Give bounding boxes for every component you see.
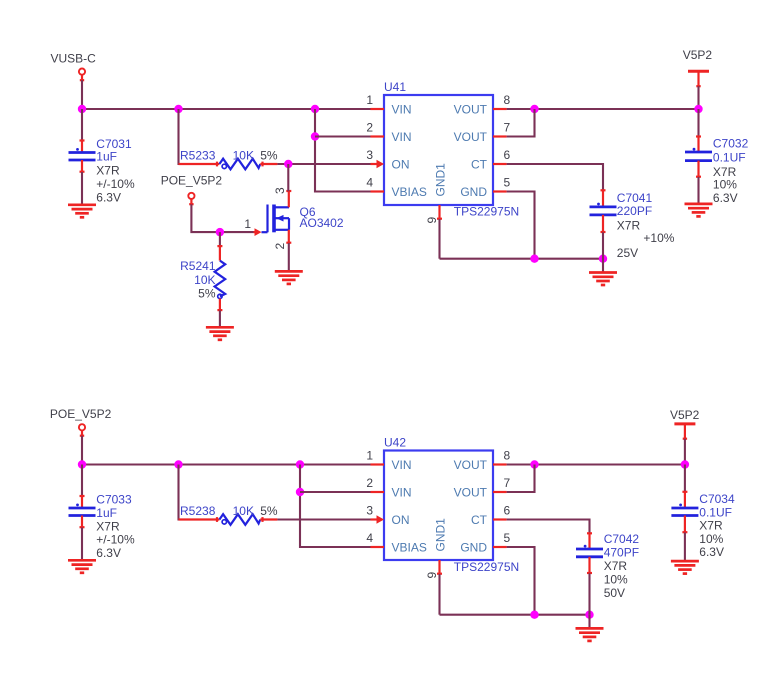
wire GND1 down to gnd net: [438, 574, 440, 615]
svg-text:6: 6: [504, 148, 511, 162]
svg-text:3: 3: [273, 187, 287, 194]
svg-text:+/-10%: +/-10%: [96, 533, 135, 547]
node junction rail/pin2-4 branch: [296, 460, 304, 468]
svg-text:10K: 10K: [233, 149, 254, 163]
svg-text:6.3V: 6.3V: [713, 191, 738, 205]
pin 2 source of Q6: [273, 230, 291, 250]
wire branch rail to pin4: [315, 109, 371, 192]
svg-text:R5241: R5241: [180, 259, 216, 273]
svg-text:V5P2: V5P2: [683, 48, 713, 62]
wire pin7 up to VOUT: [507, 465, 535, 493]
wire C7033 to ground: [81, 528, 83, 561]
wire Q6 source to ground: [288, 243, 290, 271]
wire pin5 to gnd net: [507, 192, 535, 259]
svg-text:CT: CT: [471, 513, 488, 527]
node junction pin5/gnd net: [530, 255, 538, 263]
pin 3 ON arrow: [366, 148, 409, 171]
svg-text:VUSB-C: VUSB-C: [51, 51, 97, 65]
svg-text:1: 1: [366, 449, 373, 463]
pin 2 VIN: [366, 121, 411, 144]
wire gnd net horizontal: [440, 614, 590, 616]
op-amp U41 IC box: [384, 95, 493, 205]
capacitor C7041: [590, 190, 617, 232]
svg-text:VOUT: VOUT: [454, 485, 488, 499]
svg-text:2: 2: [366, 476, 373, 490]
pin 5 GND: [460, 176, 510, 199]
node junction C7042/gnd net: [585, 611, 593, 619]
svg-text:C7041: C7041: [617, 191, 653, 205]
svg-text:470PF: 470PF: [604, 546, 639, 560]
wire VIN rail: [82, 108, 371, 110]
svg-text:X7R: X7R: [96, 163, 120, 177]
svg-text:8: 8: [504, 93, 511, 107]
svg-text:TPS22975N: TPS22975N: [454, 560, 519, 574]
pin 9 GND1 pad: [425, 518, 448, 579]
pin 7 VOUT: [454, 476, 511, 499]
svg-text:4: 4: [366, 531, 373, 545]
pin 6 CT: [471, 504, 511, 527]
wire VUSB-C down to rail: [81, 80, 83, 109]
ground C7042: [576, 628, 604, 641]
svg-text:220PF: 220PF: [617, 204, 652, 218]
wire C7031 to ground: [81, 172, 83, 205]
resistor R5241: [215, 246, 226, 310]
wire pin7 up to VOUT: [507, 109, 535, 137]
svg-text:5: 5: [504, 176, 511, 190]
svg-text:CT: CT: [471, 157, 488, 171]
node junction rail/C7031: [78, 105, 86, 113]
wire branch rail to pin4: [300, 465, 371, 548]
pin 6 CT: [471, 148, 511, 171]
node junction pin2 branch: [296, 488, 304, 496]
svg-text:VBIAS: VBIAS: [392, 540, 427, 554]
pin 1 gate of Q6: [244, 217, 261, 236]
svg-text:C7032: C7032: [713, 137, 749, 151]
node junction VOUT/V5P2/C7034: [681, 460, 689, 468]
svg-text:ON: ON: [392, 157, 410, 171]
svg-text:1uF: 1uF: [96, 150, 117, 164]
ground C7031: [68, 205, 96, 218]
BOTTOM CIRCUIT: [50, 407, 735, 641]
svg-text:R5238: R5238: [180, 504, 216, 518]
svg-text:10K: 10K: [194, 273, 215, 287]
svg-text:POE_V5P2: POE_V5P2: [50, 407, 112, 421]
svg-text:POE_V5P2: POE_V5P2: [161, 174, 223, 188]
svg-text:6.3V: 6.3V: [96, 546, 121, 560]
svg-text:X7R: X7R: [617, 218, 641, 232]
pin 7 VOUT: [454, 121, 511, 144]
power port symbol VUSB-C: [79, 69, 85, 81]
wire VOUT rail: [507, 463, 685, 465]
svg-text:VOUT: VOUT: [454, 102, 488, 116]
svg-text:10%: 10%: [713, 178, 737, 192]
svg-text:GND: GND: [460, 185, 487, 199]
wire R5233 to ON pin: [277, 163, 370, 165]
svg-text:VOUT: VOUT: [454, 458, 488, 472]
svg-text:GND: GND: [460, 540, 487, 554]
svg-text:50V: 50V: [604, 586, 625, 600]
svg-text:VIN: VIN: [392, 130, 412, 144]
svg-text:6: 6: [504, 504, 511, 518]
pin 1 VIN: [366, 449, 411, 472]
power port symbol POE_V5P2: [188, 193, 194, 205]
node junction pin2 branch: [311, 132, 319, 140]
wire branch to pin2: [300, 491, 371, 493]
wire C7031 rail to cap: [81, 109, 83, 141]
svg-text:VIN: VIN: [392, 485, 412, 499]
ground C7032: [685, 204, 713, 217]
pin 8 VOUT: [454, 93, 511, 116]
svg-text:C7034: C7034: [699, 492, 735, 506]
capacitor C7033: [69, 496, 96, 528]
wire C7034 to ground: [684, 533, 686, 562]
svg-text:5%: 5%: [198, 286, 216, 300]
wire R5238 to ON pin: [277, 518, 370, 520]
svg-text:10K: 10K: [233, 504, 254, 518]
wire V5P2 to rail: [684, 439, 686, 465]
svg-text:U42: U42: [384, 436, 406, 450]
ground C7033: [68, 560, 96, 573]
svg-text:6.3V: 6.3V: [699, 545, 724, 559]
svg-text:X7R: X7R: [604, 559, 628, 573]
wire rail down to R5238: [179, 465, 180, 520]
svg-text:GND1: GND1: [434, 163, 448, 197]
capacitor C7034: [671, 492, 698, 533]
wire CT to C7042: [507, 520, 590, 534]
svg-text:1: 1: [244, 217, 251, 231]
wire branch to pin2: [315, 135, 371, 137]
node junction ON/Q6 drain: [284, 160, 292, 168]
svg-text:10%: 10%: [604, 573, 628, 587]
svg-text:10%: 10%: [699, 532, 723, 546]
svg-text:ON: ON: [392, 513, 410, 527]
power port symbol POE_V5P2: [79, 424, 85, 436]
svg-text:0.1UF: 0.1UF: [699, 505, 732, 519]
svg-text:U41: U41: [384, 80, 406, 94]
wire down to C7032: [697, 109, 699, 136]
wire R5241 top: [219, 232, 221, 246]
svg-text:X7R: X7R: [699, 518, 723, 532]
wire Q6 drain to ON net: [287, 164, 289, 191]
svg-text:GND1: GND1: [434, 518, 448, 552]
pin 4 VBIAS: [366, 176, 427, 199]
wire rail down to R5233: [179, 109, 180, 164]
pin 5 GND: [460, 531, 510, 554]
svg-text:9: 9: [425, 217, 439, 224]
node junction gate/R5241: [216, 228, 224, 236]
svg-text:3: 3: [366, 148, 373, 162]
wire gnd net to ground: [588, 615, 590, 629]
node junction rail/R5233: [174, 105, 182, 113]
wire VOUT rail: [507, 108, 699, 110]
pin 1 VIN: [366, 93, 411, 116]
pin 3 ON arrow: [366, 504, 409, 527]
svg-text:R5233: R5233: [180, 149, 216, 163]
svg-text:0.1UF: 0.1UF: [713, 151, 746, 165]
svg-text:1: 1: [366, 93, 373, 107]
node junction pin5/gnd net: [530, 611, 538, 619]
node junction VOUT/pin7: [530, 460, 538, 468]
wire C7041 to gnd net: [602, 232, 604, 272]
ground Q6: [275, 271, 303, 284]
ground R5241: [206, 327, 234, 340]
svg-text:1uF: 1uF: [96, 506, 117, 520]
ground C7041: [589, 273, 617, 286]
capacitor C7032: [685, 136, 712, 177]
wire down to C7034: [684, 465, 686, 492]
pin 2 VIN: [366, 476, 411, 499]
svg-text:6.3V: 6.3V: [96, 191, 121, 205]
svg-text:7: 7: [504, 476, 511, 490]
node junction VOUT/pin7: [530, 105, 538, 113]
node junction rail/pin2-4 branch: [311, 105, 319, 113]
capacitor C7031: [69, 141, 96, 173]
svg-text:2: 2: [366, 121, 373, 135]
power symbol V5P2: [688, 71, 709, 86]
node junction rail/R5238: [174, 460, 182, 468]
op-amp U42 IC box: [384, 451, 493, 561]
node junction VOUT/V5P2/C7032: [694, 105, 702, 113]
transistor Q2 body Q6: [262, 205, 290, 233]
wire V5P2 to rail: [697, 86, 699, 109]
ground C7034: [671, 561, 699, 574]
svg-text:AO3402: AO3402: [300, 216, 344, 230]
svg-text:VIN: VIN: [392, 458, 412, 472]
svg-text:V5P2: V5P2: [670, 408, 700, 422]
svg-text:5%: 5%: [260, 504, 278, 518]
svg-text:7: 7: [504, 121, 511, 135]
svg-text:+/-10%: +/-10%: [96, 177, 135, 191]
svg-text:VOUT: VOUT: [454, 130, 488, 144]
wire POE_V5P2 down to rail: [81, 436, 83, 465]
pin 9 GND1 pad: [425, 163, 448, 224]
node junction rail/C7033: [78, 460, 86, 468]
svg-text:C7033: C7033: [96, 493, 132, 507]
TOP CIRCUIT: [51, 48, 749, 340]
svg-text:8: 8: [504, 449, 511, 463]
svg-text:9: 9: [425, 572, 439, 579]
svg-text:VBIAS: VBIAS: [392, 185, 427, 199]
svg-text:+10%: +10%: [643, 231, 674, 245]
node junction C7041/gnd net: [599, 255, 607, 263]
wire VIN rail: [82, 463, 371, 465]
svg-text:VIN: VIN: [392, 102, 412, 116]
wire pin5 to gnd net: [507, 547, 535, 615]
svg-text:5: 5: [504, 531, 511, 545]
wire gnd net horizontal: [440, 258, 604, 260]
svg-text:X7R: X7R: [96, 519, 120, 533]
wire POE_V5P2 to gate net: [191, 204, 253, 232]
pin 4 VBIAS: [366, 531, 427, 554]
svg-text:TPS22975N: TPS22975N: [454, 205, 519, 219]
capacitor C7042: [576, 533, 603, 573]
wire C7042 to gnd net: [588, 573, 590, 614]
pin 8 VOUT: [454, 449, 511, 472]
pin 3 drain of Q6: [273, 187, 291, 207]
wire C7032 to ground: [697, 177, 699, 204]
svg-text:3: 3: [366, 504, 373, 518]
svg-text:25V: 25V: [617, 246, 638, 260]
resistor R5233: [179, 159, 278, 170]
svg-text:5%: 5%: [260, 149, 278, 163]
wire R5241 to ground: [219, 310, 221, 327]
power symbol V5P2: [674, 424, 695, 439]
resistor R5238: [179, 514, 278, 525]
svg-text:2: 2: [273, 243, 287, 250]
wire CT to C7041: [507, 164, 603, 190]
wire GND1 down to gnd net: [438, 219, 440, 259]
svg-text:4: 4: [366, 176, 373, 190]
svg-text:C7042: C7042: [604, 532, 640, 546]
capacitor C7033 wire from rail: [81, 465, 83, 497]
